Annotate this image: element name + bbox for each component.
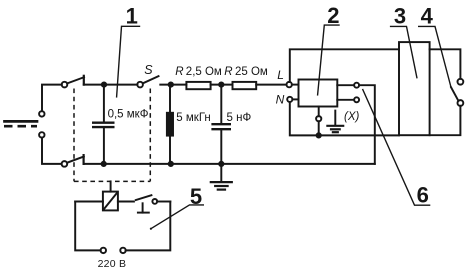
switch pole top-left <box>62 76 84 88</box>
wire outer loop from L up and right <box>290 49 399 82</box>
callout 1 <box>117 26 140 97</box>
callout 2 <box>318 25 339 95</box>
terminal X1 bottom <box>39 132 44 137</box>
relay K1 coil <box>103 192 118 211</box>
earth ground (X) <box>327 111 343 133</box>
node junction cap C1 bottom <box>102 162 106 166</box>
svg-text:S: S <box>144 63 153 77</box>
wire bottom rail <box>84 163 375 165</box>
unit 2 box <box>299 80 338 107</box>
wire L to box2 <box>292 84 299 86</box>
wire N to box2 <box>292 98 298 100</box>
terminal X1 top <box>39 111 44 116</box>
callout 4 <box>419 26 451 87</box>
node junction inductor bottom <box>169 162 173 166</box>
mains input symbol <box>4 121 37 126</box>
svg-text:5 мкГн: 5 мкГн <box>176 112 210 124</box>
svg-text:N: N <box>276 92 285 106</box>
resistor R1 2.5 Ohm <box>186 82 210 89</box>
svg-text:25 Ом: 25 Ом <box>235 66 268 78</box>
wire outer loop right of box3 <box>430 49 461 79</box>
terminal 220V right <box>120 248 125 253</box>
node junction inductor top <box>169 82 173 86</box>
svg-text:L: L <box>277 68 284 82</box>
wire relay loop right side <box>126 202 171 251</box>
wire box2 right bottom <box>337 99 354 101</box>
callout 5 <box>150 205 204 230</box>
wire left vertical bottom <box>42 138 62 164</box>
dashed mechanical link right <box>149 89 151 182</box>
switch S <box>137 76 158 87</box>
node junction cap C2 top <box>219 82 223 86</box>
capacitor C1 0.5uF <box>93 85 113 164</box>
terminal 220V left <box>101 248 106 253</box>
terminal N <box>287 97 292 102</box>
wire top rail segment A <box>84 84 138 86</box>
svg-text:220 В: 220 В <box>98 258 127 270</box>
svg-text:R: R <box>175 66 183 78</box>
capacitor C2 5nF <box>213 85 230 164</box>
wire left vertical top <box>42 85 62 112</box>
node junction cap C1 top <box>102 82 106 86</box>
terminal box2 right top <box>354 83 359 88</box>
wire switch4 down to bottom <box>430 106 461 135</box>
wire top rail segment C <box>211 84 233 86</box>
svg-text:(X): (X) <box>344 111 360 123</box>
wire to down corner <box>359 85 375 164</box>
wire top rail segment B <box>160 84 186 86</box>
inductor L1 5uH <box>167 85 173 164</box>
node junction cap C2 bottom / earth <box>219 162 223 166</box>
svg-text:3: 3 <box>394 4 406 29</box>
ground earth under C2 <box>211 164 232 190</box>
svg-text:R: R <box>224 66 232 78</box>
terminal box2 right bottom <box>354 97 359 102</box>
wire relay loop top left <box>75 201 103 203</box>
callout 3 <box>391 26 417 77</box>
pushbutton SB <box>136 195 171 212</box>
switch pole bottom-left <box>62 155 84 167</box>
terminal L <box>287 82 292 87</box>
svg-text:1: 1 <box>126 4 138 29</box>
resistor R2 25 Ohm <box>233 82 257 89</box>
callout 6 <box>363 90 430 206</box>
svg-text:5 нФ: 5 нФ <box>227 112 252 124</box>
switch 4 <box>451 79 463 106</box>
svg-text:2,5 Ом: 2,5 Ом <box>186 66 222 78</box>
svg-text:6: 6 <box>417 182 429 207</box>
unit 3 box <box>399 42 430 135</box>
wire relay loop left/bottom/right <box>75 202 100 251</box>
terminal under box2 <box>316 107 321 136</box>
svg-text:0,5 мкФ: 0,5 мкФ <box>108 109 149 121</box>
node junction ground branch <box>317 133 321 137</box>
wire top rail segment D <box>256 84 286 86</box>
svg-text:4: 4 <box>421 4 434 29</box>
dashed mechanical link left <box>73 89 75 182</box>
wire box2 right top to corner <box>337 84 354 86</box>
svg-text:2: 2 <box>327 3 339 28</box>
wire N branch down and bottom of unit2 area <box>290 102 399 135</box>
wire relay loop top right of coil <box>118 201 134 203</box>
dashed mechanical link bottom <box>74 180 150 182</box>
link to relay armature <box>110 181 112 191</box>
svg-text:5: 5 <box>190 184 202 209</box>
